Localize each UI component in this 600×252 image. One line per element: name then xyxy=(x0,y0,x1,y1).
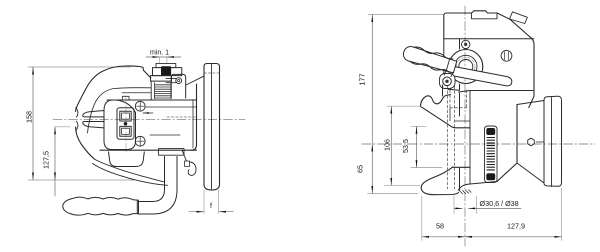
svg-text:53,5: 53,5 xyxy=(401,139,410,153)
dimension f xyxy=(189,190,234,214)
screw bottom xyxy=(135,136,145,146)
body bottom edge xyxy=(100,149,197,151)
inner head rounded block xyxy=(104,100,136,150)
funnel lower wing xyxy=(421,167,458,195)
grip right view (wavy, angled) xyxy=(401,44,457,75)
block top tab xyxy=(123,96,130,100)
ring boss circles xyxy=(449,50,483,84)
column xyxy=(443,85,460,191)
pin bracket xyxy=(171,74,186,98)
body internal horizontals xyxy=(107,99,197,101)
dimension 158 xyxy=(25,67,135,180)
svg-text:65: 65 xyxy=(356,165,365,173)
centerline horizontal right view xyxy=(362,143,595,145)
svg-text:Ø30,6 / Ø38: Ø30,6 / Ø38 xyxy=(480,199,519,208)
funnel throat diagonal xyxy=(420,106,470,128)
svg-text:min. 1: min. 1 xyxy=(150,50,169,57)
housing seam xyxy=(444,38,534,40)
dimension 58 and 127,9 xyxy=(422,188,562,241)
dimension 127,5 xyxy=(42,127,71,196)
dimension 53,5 xyxy=(401,126,442,167)
pivot washer xyxy=(440,74,456,89)
svg-text:158: 158 xyxy=(25,111,34,123)
slanted lug xyxy=(510,12,528,24)
screw top xyxy=(135,101,145,111)
top cap assembly xyxy=(156,63,176,67)
handle attach block xyxy=(159,149,185,156)
link to pivot xyxy=(444,71,453,77)
top screw xyxy=(462,40,470,48)
housing outline xyxy=(444,11,534,108)
cap flange plate xyxy=(151,76,172,82)
hex bolt on drum xyxy=(528,138,535,146)
dimension 177 / 65 shared line xyxy=(356,15,444,194)
head inner contour xyxy=(88,88,151,133)
gusset diagonal to flange xyxy=(186,76,204,85)
centerline vertical right view xyxy=(464,6,466,246)
pin tube seen through face xyxy=(450,109,470,122)
pivot nut xyxy=(443,77,452,86)
column bottom hatch xyxy=(460,190,472,194)
body right edge xyxy=(191,84,197,150)
mouth bottom edge xyxy=(453,166,471,168)
leader arrow to latch xyxy=(143,112,153,114)
spring stack xyxy=(155,83,171,99)
right plug xyxy=(501,50,512,61)
body right lower part xyxy=(459,105,518,191)
jaw lower outline xyxy=(76,127,96,160)
safety hook tab xyxy=(185,161,190,167)
release pin xyxy=(166,78,176,82)
jaw edge bumps at mouth xyxy=(76,108,78,131)
rating plate xyxy=(485,126,498,183)
dimension Ø30,6 / Ø38 xyxy=(454,196,521,214)
jaw mouth upper lip xyxy=(83,111,104,117)
svg-text:177: 177 xyxy=(358,74,367,86)
jaw mouth lower lip xyxy=(83,122,104,128)
funnel bowl xyxy=(109,152,145,167)
latch centerline xyxy=(125,97,127,152)
handle tube xyxy=(139,157,165,202)
top boss xyxy=(472,13,498,19)
latch plate xyxy=(117,108,134,139)
handle grip (wavy) xyxy=(63,197,139,215)
flange plate xyxy=(204,64,220,191)
centerline horizontal left view xyxy=(53,118,245,120)
dimension min. 1 xyxy=(146,50,181,63)
hidden pin square xyxy=(450,90,467,108)
dimension 106 xyxy=(383,106,422,185)
body outline (C-shaped casting) xyxy=(76,66,151,112)
body lower-right arm curves to handle xyxy=(95,160,164,182)
svg-text:106: 106 xyxy=(383,139,392,151)
svg-text:58: 58 xyxy=(436,222,444,231)
drum (side cylinder) xyxy=(517,101,544,184)
svg-text:127,5: 127,5 xyxy=(42,151,51,169)
funnel upper wing (omega wave) xyxy=(420,95,450,107)
svg-text:f: f xyxy=(210,203,212,210)
lever bar xyxy=(451,67,512,86)
svg-text:127,9: 127,9 xyxy=(507,222,525,231)
